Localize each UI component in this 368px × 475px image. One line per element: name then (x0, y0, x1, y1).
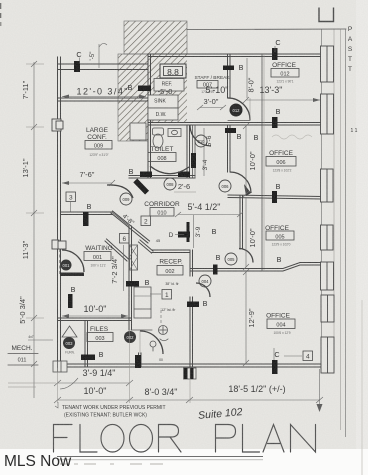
box tag 1 (150, 290, 172, 300)
millwork recep desk (134, 287, 151, 318)
wall top right (148, 54, 321, 57)
right lighter page edge (356, 0, 368, 475)
door arc D001 (60, 249, 85, 274)
wall toilet bottom (129, 176, 195, 179)
sink box (148, 95, 178, 108)
black mark waiting east (126, 281, 139, 287)
dim 8-0 vertical (247, 58, 256, 98)
black mark door002 wall (135, 355, 141, 368)
window pier 2 (321, 94, 334, 134)
dim 12-0 3/4 (62, 87, 146, 99)
room label recep (157, 259, 183, 276)
window pier 7 (321, 337, 334, 373)
wall toilet right (187, 125, 190, 178)
wall divider 005-004 with jog (190, 263, 321, 272)
door tag D005 (225, 253, 237, 265)
pier below bottom wall (184, 368, 197, 379)
wall top-left band (58, 64, 149, 70)
dim 3-9 vertical corridor (194, 215, 203, 248)
ref box (154, 79, 184, 92)
room label mech (8, 335, 53, 365)
dim mini -5 top (89, 43, 107, 68)
plus symbol recep (159, 310, 169, 341)
door tag D001 (61, 260, 72, 271)
wall divider band y122 (148, 123, 321, 126)
door arc D005 (239, 249, 253, 263)
dim 2-6 (174, 182, 196, 192)
door tag D003 (63, 337, 75, 355)
wall offices west long (262, 55, 264, 270)
black mark toilet south west (140, 172, 152, 178)
wall recep northwest diagonal (139, 240, 154, 253)
black mark corridor east (225, 128, 236, 133)
svg-text:MLS Now: MLS Now (4, 453, 72, 470)
black mark C top-left (74, 61, 80, 72)
dim 10-0 office006 (243, 123, 257, 197)
dim bottom line (54, 322, 323, 412)
black mark B office006 window (272, 191, 277, 203)
door tag D009 (120, 193, 132, 205)
black mark toilet east jamb (191, 153, 196, 168)
room label office 005 (265, 225, 294, 247)
door tag D006 (219, 180, 231, 192)
door arc D004 (196, 283, 210, 297)
room label files (87, 326, 113, 342)
door tag D002 (124, 331, 136, 343)
box tag 2 (141, 216, 151, 226)
room label corridor (144, 201, 180, 217)
door arc D009 (107, 185, 133, 198)
dim 3-0 (197, 97, 226, 110)
wall large conf top (58, 98, 151, 101)
dim 13-3 (243, 85, 320, 103)
wall waiting north (61, 212, 113, 215)
door tag D008 (164, 178, 176, 190)
dim 12-9 office004 (243, 269, 256, 366)
dim 3-9 1/4 (54, 368, 133, 389)
dw box (148, 108, 178, 120)
room label office 012 (271, 62, 299, 84)
wall files inner (85, 321, 88, 367)
dim 7-2 3/4 vertical (110, 245, 124, 291)
wall recep east (190, 250, 193, 366)
box tag 3 (66, 192, 76, 212)
sink toilet room (168, 129, 181, 137)
door wedge D003 (62, 326, 77, 337)
dim 5-4 1/2 (175, 202, 243, 217)
box tag 4 (284, 351, 313, 361)
door leaf D008 diagonal (133, 179, 149, 195)
black mark toilet south east (178, 172, 190, 178)
page fold right (361, 300, 363, 475)
room label office 004 (266, 313, 295, 336)
wall bottom exterior (58, 364, 322, 367)
column U at top right (319, 8, 334, 22)
dim 7-6 (62, 170, 115, 186)
leader mech left (8, 383, 56, 387)
tag C top-left (76, 50, 81, 64)
door tag D012 (230, 104, 243, 117)
window pier 1 (321, 46, 334, 82)
black mark waiting north (83, 212, 89, 226)
black mark staff wall top (223, 66, 234, 71)
black mark door005 jamb (213, 265, 218, 275)
black mark B office012 window (272, 117, 278, 128)
wall recep north (152, 250, 190, 253)
room label waiting (84, 245, 113, 268)
door tag D004 (199, 275, 211, 287)
text PASTT vertical (348, 26, 353, 73)
keynote circle recep (150, 341, 156, 351)
title PLAN single-stroke letters (216, 425, 316, 453)
hatch region right column (148, 54, 187, 123)
window pier 5 (321, 262, 334, 290)
tag C office012 (275, 38, 281, 52)
squiggle office006 (272, 135, 312, 139)
tag C office004 (274, 348, 280, 360)
wall waiting south (58, 318, 132, 321)
room label office 006 (266, 150, 296, 173)
door arc D002 (140, 331, 163, 354)
top roof line (187, 28, 346, 31)
door tag D010 (195, 135, 207, 147)
black mark left wall lower (68, 294, 73, 308)
wall divider 006-005 (228, 195, 321, 199)
dim string left vertical (26, 61, 44, 398)
title underline (57, 457, 263, 460)
wall corridor left stub (193, 125, 196, 178)
wall corridor diagonal upper (111, 211, 150, 243)
window pier 3 (321, 169, 334, 202)
mech box on wall (53, 361, 67, 372)
tag 8.8 box (160, 64, 186, 78)
box tag 6 (120, 234, 130, 244)
door leaf D001 (60, 273, 84, 277)
hatch region left column (118, 54, 148, 141)
left wall bump lower (52, 240, 66, 249)
door arc D008 toilet swing (150, 166, 189, 174)
bottom white strip (0, 449, 368, 475)
window glass lines right (322, 29, 346, 437)
window pier 6 (321, 295, 334, 322)
wall left exterior (58, 57, 61, 366)
door arc D012 (228, 98, 250, 120)
window pier 4 (321, 225, 334, 250)
wall vestibule bottom piece (228, 120, 250, 122)
wall recep south stub (131, 330, 152, 366)
black mark staff west (138, 86, 151, 92)
wall waiting east (112, 212, 132, 330)
left wall bump upper (52, 119, 63, 131)
dim 10-0 waiting (62, 304, 128, 318)
room label toilet (148, 146, 176, 162)
hatch region upper block (124, 21, 187, 54)
panel with X near corridor (130, 245, 138, 270)
wall office005 alcove (240, 196, 243, 249)
dim 10-0 office005 (243, 198, 257, 270)
page edge marks top-left (0, 3, 1, 26)
black mark C office012 (272, 48, 278, 60)
wall vestibule east upper (228, 54, 231, 98)
wall corridor east mid (228, 125, 231, 172)
black mark files (81, 355, 95, 361)
black mark corridor D leaf (178, 222, 190, 242)
door arc D010 (190, 125, 211, 146)
dim 5-6 vertical (204, 128, 213, 176)
door arc D006 (230, 172, 251, 193)
faint scale dashes (60, 463, 163, 465)
toilet fixture (153, 128, 164, 148)
black mark C office004 (272, 360, 278, 374)
room label staff break (194, 75, 230, 94)
chase box in hatch (130, 123, 146, 140)
wall large conf right (148, 54, 151, 178)
title FLOOR single-stroke letters (54, 424, 182, 452)
room label large conf (85, 127, 112, 157)
black mark recep east (187, 302, 199, 308)
tag D corridor (169, 232, 184, 239)
note tenant work (55, 402, 166, 419)
wall corridor diagonal lower (105, 239, 129, 261)
